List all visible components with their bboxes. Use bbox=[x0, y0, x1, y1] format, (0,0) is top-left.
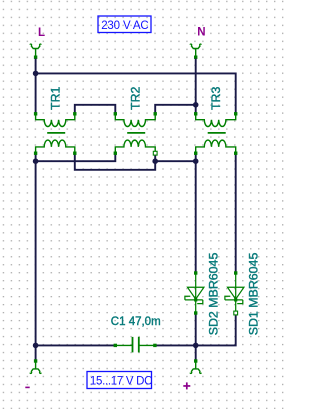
junction at L top rail bbox=[33, 71, 39, 77]
diode SD2 bar square bbox=[194, 298, 197, 301]
diode SD1 bottom pin (hollow) bbox=[234, 311, 238, 315]
svg-text:C1 47,0m: C1 47,0m bbox=[111, 316, 161, 328]
wire bottom rail left segment to capacitor bbox=[36, 344, 116, 346]
svg-text:TR2: TR2 bbox=[128, 86, 142, 110]
wire junction C down to diode SD2 bbox=[195, 161, 197, 272]
diode SD1 bbox=[225, 273, 244, 313]
junction B bbox=[152, 158, 158, 164]
capacitor C1 pins bbox=[114, 344, 117, 347]
transformer TR3 bbox=[196, 114, 236, 153]
transformer TR1 pins bbox=[34, 112, 77, 155]
svg-text:15...17 V DC: 15...17 V DC bbox=[90, 375, 152, 387]
wire TR1 primary right to TR2 primary left bbox=[75, 105, 116, 114]
svg-text:SD1 MBR6045: SD1 MBR6045 bbox=[247, 253, 261, 336]
wire left terminal drop bbox=[35, 345, 37, 360]
wire left rail TR1 secondary left down to bottom rail bbox=[35, 153, 37, 345]
frame label 230 V AC bbox=[98, 16, 151, 33]
junction C bbox=[193, 158, 199, 164]
wire diode SD2 bottom to bottom rail bbox=[195, 313, 197, 345]
svg-text:TR3: TR3 bbox=[209, 86, 223, 110]
node plus label bbox=[183, 382, 190, 389]
node minus label bbox=[25, 387, 29, 389]
terminal minus bbox=[30, 361, 41, 373]
terminal minus pin bbox=[34, 359, 37, 362]
transformer TR2 pins bbox=[114, 112, 157, 155]
capacitor C1 bbox=[115, 344, 155, 346]
transformer TR2 secondary right pin (hollow) bbox=[153, 151, 157, 155]
diode SD1 top pin bbox=[234, 271, 237, 274]
svg-text:SD2 MBR6045: SD2 MBR6045 bbox=[207, 253, 221, 336]
terminal L pin bbox=[34, 56, 37, 59]
svg-text:230 V AC: 230 V AC bbox=[101, 20, 148, 32]
diode SD1 bar square bbox=[234, 298, 237, 301]
wire TR2 secondary right pin to junction B bbox=[154, 153, 156, 161]
wire TR2 primary right to N node bbox=[155, 105, 196, 114]
wire top rail L to TR3 primary right bbox=[36, 73, 236, 113]
wire L drop to TR1 primary left bbox=[35, 59, 37, 114]
wire TR1 secondary right lower route to junction B bbox=[75, 153, 155, 170]
terminal N bbox=[190, 44, 201, 57]
wire TR3 secondary left pin to junction C bbox=[195, 153, 197, 161]
svg-text:L: L bbox=[38, 27, 45, 39]
junction A bbox=[33, 158, 39, 164]
junction bottom left bbox=[33, 343, 39, 349]
frame label 15...17 V DC bbox=[87, 372, 152, 389]
wire bottom rail right segment to diode SD1 bottom bbox=[155, 314, 236, 346]
wire TR3 secondary right down to diode SD1 bbox=[235, 153, 237, 272]
transformer TR2 bbox=[115, 114, 155, 153]
diode SD2 bbox=[185, 273, 204, 313]
terminal plus pin bbox=[194, 359, 197, 362]
junction bottom right bbox=[193, 343, 199, 349]
wire right terminal drop bbox=[195, 345, 197, 360]
capacitor C1 plates bbox=[132, 337, 134, 353]
terminal N pin bbox=[194, 56, 197, 59]
terminal plus bbox=[190, 361, 201, 373]
terminal L bbox=[30, 44, 41, 57]
transformer TR1 bbox=[36, 114, 75, 153]
wire junction B to junction C bbox=[155, 160, 196, 162]
wire junction A to TR2 secondary left bbox=[36, 153, 116, 161]
diode SD2 pins bbox=[194, 271, 197, 274]
junction at N mid rail bbox=[193, 102, 199, 108]
svg-text:TR1: TR1 bbox=[48, 86, 62, 110]
wire N drop to TR3 primary left bbox=[195, 59, 197, 114]
transformer TR3 pins bbox=[194, 112, 237, 155]
svg-text:N: N bbox=[197, 27, 205, 39]
